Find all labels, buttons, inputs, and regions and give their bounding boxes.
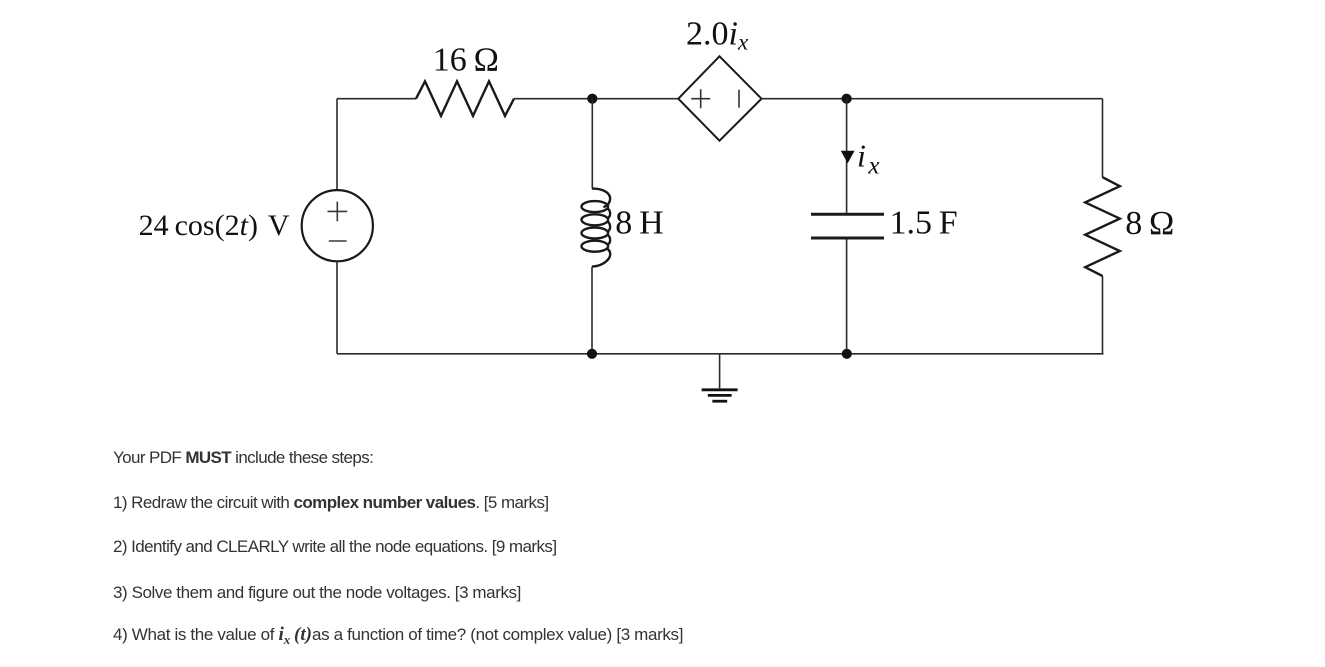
resistor R2 8ohm zigzag vertical	[1085, 177, 1120, 276]
svg-text:8 Ω: 8 Ω	[1125, 205, 1174, 242]
svg-text:2.0ix: 2.0ix	[686, 15, 749, 54]
wire inductor top lead	[591, 99, 593, 188]
wire left vertical lower	[336, 261, 338, 354]
svg-text:24 cos(2t) V: 24 cos(2t) V	[139, 209, 290, 242]
plus sign inside diamond	[691, 89, 710, 108]
node bottom-left dot	[587, 349, 597, 359]
node bottom-right dot	[842, 349, 852, 359]
wire top-right horizontal	[762, 98, 1103, 100]
wire top-left horizontal	[337, 98, 416, 100]
capacitor C 1.5F plates	[811, 213, 884, 216]
node A dot	[587, 94, 597, 104]
wire right vertical upper	[1102, 99, 1104, 178]
wire bottom horizontal	[337, 353, 1104, 355]
wire capacitor bottom lead	[846, 240, 848, 354]
wire inductor bottom lead	[591, 267, 593, 354]
ground stem	[719, 354, 721, 389]
svg-text:ix: ix	[857, 138, 880, 180]
minus sign in source	[329, 240, 347, 242]
svg-text:8 H: 8 H	[615, 205, 663, 242]
svg-text:16 Ω: 16 Ω	[433, 41, 499, 78]
voltage source V1 circle	[302, 190, 373, 261]
wire left vertical upper	[336, 99, 338, 190]
node B dot	[842, 94, 852, 104]
dependent source U1 diamond	[678, 56, 761, 140]
plus sign in source	[328, 202, 348, 222]
svg-text:1.5 F: 1.5 F	[890, 205, 958, 242]
wire capacitor top lead	[846, 99, 848, 213]
ground bars	[702, 388, 738, 391]
wire right vertical lower	[1102, 276, 1104, 354]
minus bar inside diamond	[738, 90, 740, 108]
inductor L 8H coil	[582, 189, 611, 267]
wire top-middle horizontal	[514, 98, 678, 100]
current arrow ix	[841, 151, 855, 163]
resistor R 16ohm zigzag	[416, 81, 514, 116]
